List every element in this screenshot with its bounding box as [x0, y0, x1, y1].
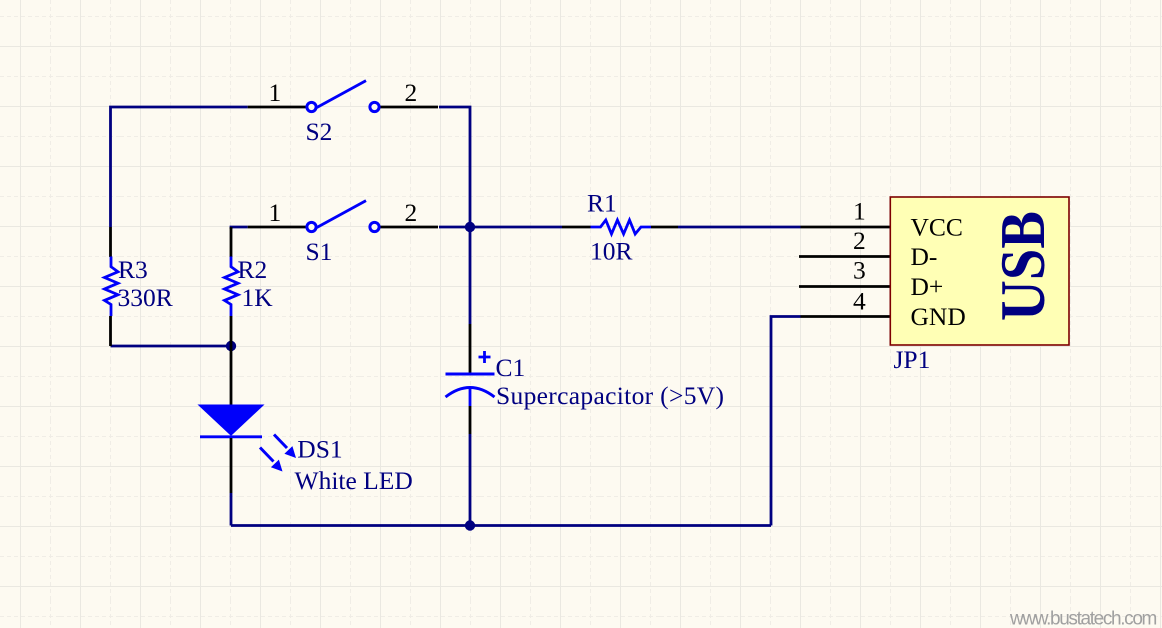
- wire DS1 cathode to bottom rail: [230, 493, 233, 526]
- svg-text:C1: C1: [496, 353, 526, 382]
- wire node A to R1 left: [470, 226, 562, 229]
- wire S1 pin2 to node A: [439, 226, 470, 229]
- svg-text:Supercapacitor (>5V): Supercapacitor (>5V): [496, 381, 724, 410]
- switch S2 pin 1 lead: [248, 106, 306, 109]
- resistor R1 left lead: [562, 226, 591, 229]
- svg-text:S1: S1: [306, 237, 333, 266]
- LED DS1 cathode lead: [230, 438, 233, 493]
- svg-text:USB: USB: [988, 211, 1059, 321]
- resistor R1 body: [591, 220, 652, 234]
- svg-text:R3: R3: [118, 255, 148, 284]
- switch S1 right contact: [370, 222, 379, 231]
- capacitor C1 lower stub: [469, 389, 472, 406]
- junction node B at R3/R2: [226, 341, 236, 351]
- svg-text:1: 1: [853, 197, 866, 226]
- svg-text:1: 1: [269, 198, 282, 227]
- junction node A at S1 pin2: [465, 222, 475, 232]
- USB connector JP1 pin 2 lead: [799, 255, 890, 258]
- USB connector JP1 pin 1 lead: [801, 226, 891, 229]
- svg-text:www.bustatech.com: www.bustatech.com: [1009, 609, 1157, 628]
- capacitor C1 top lead: [469, 324, 472, 374]
- svg-text:2: 2: [405, 78, 418, 107]
- svg-text:330R: 330R: [118, 283, 173, 312]
- svg-text:1: 1: [269, 78, 282, 107]
- svg-text:2: 2: [853, 226, 866, 255]
- wire S2 pin2 to vertical bus: [439, 107, 470, 227]
- resistor R2 top lead: [230, 227, 233, 257]
- resistor R3 bottom lead: [109, 316, 112, 346]
- switch S1 left contact: [307, 222, 316, 231]
- capacitor C1 bottom lead: [469, 406, 472, 434]
- LED DS1 anode lead: [230, 346, 233, 406]
- svg-text:White LED: White LED: [295, 466, 413, 495]
- wire R3 bottom to junction B: [111, 345, 232, 348]
- svg-text:D-: D-: [911, 242, 938, 271]
- switch S1 pin 1 lead: [248, 226, 306, 229]
- switch S2 blade: [317, 81, 366, 108]
- resistor R2 body: [225, 257, 239, 317]
- wire bottom rail: [231, 524, 771, 527]
- wire C1 bottom to bottom rail: [469, 434, 472, 526]
- wire node A down to C1: [469, 227, 472, 324]
- USB connector JP1 pin 4 lead: [801, 315, 891, 318]
- svg-text:S2: S2: [306, 117, 333, 146]
- wire R1 right to USB pin1: [678, 226, 801, 229]
- svg-text:1K: 1K: [242, 283, 274, 312]
- svg-text:GND: GND: [911, 302, 966, 331]
- USB connector JP1 body: [890, 197, 1069, 345]
- svg-text:VCC: VCC: [911, 212, 963, 241]
- svg-text:4: 4: [853, 287, 866, 316]
- capacitor C1 curved plate: [446, 388, 495, 398]
- wire bottom rail up to USB pin4: [771, 317, 801, 526]
- wire S1 pin1 corner to R2: [231, 227, 248, 229]
- switch S2 right contact: [370, 102, 379, 111]
- svg-text:10R: 10R: [590, 237, 633, 266]
- resistor R1 right lead: [651, 226, 678, 229]
- LED DS1 triangle: [200, 406, 262, 435]
- USB connector JP1 pin 3 lead: [799, 285, 890, 288]
- capacitor C1 plus sign: [479, 351, 491, 363]
- svg-text:2: 2: [405, 198, 418, 227]
- resistor R3 body: [105, 257, 119, 317]
- svg-text:D+: D+: [911, 272, 944, 301]
- switch S1 blade: [317, 201, 366, 228]
- LED DS1 emission arrow 2: [260, 448, 283, 472]
- USB connector type text: [988, 211, 1059, 321]
- LED DS1 emission arrow 1: [274, 435, 296, 459]
- resistor R2 bottom lead: [230, 316, 233, 346]
- capacitor C1 positive plate: [446, 373, 495, 376]
- svg-text:3: 3: [853, 256, 866, 285]
- svg-text:R2: R2: [238, 255, 268, 284]
- svg-text:R1: R1: [587, 189, 617, 218]
- svg-text:DS1: DS1: [297, 435, 342, 464]
- switch S1 pin 2 lead: [380, 226, 439, 229]
- resistor R3 top lead: [109, 227, 112, 257]
- wire top-left L from S2 pin1 down to R3: [111, 107, 248, 227]
- switch S2 pin 2 lead: [380, 106, 439, 109]
- LED DS1 cathode bar: [200, 435, 262, 438]
- svg-text:JP1: JP1: [894, 345, 931, 374]
- junction node C on bottom rail: [465, 520, 475, 530]
- switch S2 left contact: [307, 102, 316, 111]
